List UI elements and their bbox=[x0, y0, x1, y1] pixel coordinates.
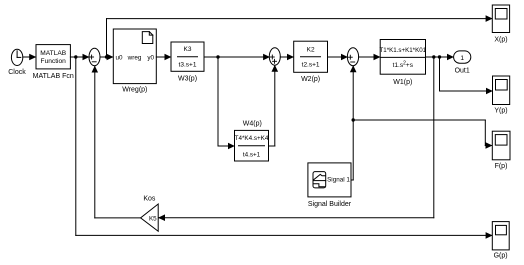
svg-text:t2.s+1: t2.s+1 bbox=[302, 62, 320, 69]
node branch to Y(p) bbox=[438, 55, 441, 58]
wire feedback down bbox=[433, 57, 435, 218]
wire W4 to Sum2 bbox=[269, 145, 275, 147]
svg-text:K2: K2 bbox=[307, 46, 315, 53]
node branch to G(p) bbox=[74, 55, 77, 58]
svg-text:F(p): F(p) bbox=[495, 163, 508, 170]
svg-text:t4.s+1: t4.s+1 bbox=[243, 152, 261, 159]
svg-text:MATLAB Fcn: MATLAB Fcn bbox=[33, 73, 74, 80]
sum Sum1 bbox=[89, 48, 100, 65]
svg-text:Signal 1: Signal 1 bbox=[327, 176, 350, 183]
scope X(p) bbox=[492, 5, 509, 44]
svg-text:u0: u0 bbox=[116, 54, 124, 61]
wire reference down bbox=[75, 57, 77, 235]
svg-text:wreg: wreg bbox=[127, 54, 142, 61]
transfer fn W4(p) bbox=[235, 120, 269, 161]
scope F(p) bbox=[492, 131, 510, 170]
wire Sum2 to W2 bbox=[280, 56, 293, 58]
node branch to W4 bbox=[216, 55, 219, 58]
wire to F(p) bbox=[353, 119, 485, 121]
node branch to F(p) bbox=[352, 118, 355, 121]
svg-text:Kos: Kos bbox=[143, 196, 156, 203]
scope G(p) bbox=[492, 222, 509, 260]
svg-text:T4*K4.s+K4: T4*K4.s+K4 bbox=[235, 135, 269, 142]
outport Out1 bbox=[454, 51, 471, 74]
node branch feedback bbox=[432, 55, 435, 58]
wire up to top bbox=[106, 19, 108, 57]
wire down to W4 bbox=[217, 57, 219, 146]
wire Wreg to W3 bbox=[156, 56, 170, 58]
clock Clock bbox=[8, 49, 26, 76]
wire Clock to MATLAB Fcn bbox=[23, 56, 36, 58]
svg-text:T1*K1.s+K1*K01: T1*K1.s+K1*K01 bbox=[379, 47, 426, 54]
svg-text:W4(p): W4(p) bbox=[243, 120, 262, 127]
wire feedback to Kos bbox=[159, 217, 434, 219]
svg-text:Wreg(p): Wreg(p) bbox=[122, 86, 147, 93]
svg-text:X(p): X(p) bbox=[494, 37, 507, 44]
wire Sum1 to Wreg bbox=[100, 56, 113, 58]
wire W3 to Sum2 bbox=[204, 56, 270, 58]
svg-text:Clock: Clock bbox=[8, 69, 26, 76]
sum Sum3 bbox=[347, 48, 358, 66]
transfer fn W1(p) bbox=[379, 40, 426, 87]
transfer fn W3(p) bbox=[171, 42, 204, 82]
scope Y(p) bbox=[493, 76, 510, 115]
wire Kos to Sum1 bbox=[95, 217, 141, 219]
svg-text:t3.s+1: t3.s+1 bbox=[179, 61, 197, 68]
svg-text:1: 1 bbox=[460, 55, 464, 62]
svg-text:G(p): G(p) bbox=[494, 252, 508, 259]
node branch to X(p) bbox=[105, 55, 108, 58]
subsystem Wreg(p) bbox=[113, 29, 156, 93]
wire Signal Builder to Sum3 bbox=[351, 179, 353, 181]
sum Sum2 bbox=[269, 48, 280, 65]
gain Kos bbox=[141, 196, 159, 232]
svg-text:Function: Function bbox=[41, 58, 67, 65]
svg-text:Signal Builder: Signal Builder bbox=[308, 201, 352, 208]
wire Y branch down bbox=[439, 57, 441, 91]
wire into W4 bbox=[218, 145, 234, 147]
wire Sum3 to W1 bbox=[359, 56, 380, 58]
wire W1 to Out1 bbox=[426, 56, 454, 58]
svg-text:W3(p): W3(p) bbox=[178, 75, 197, 82]
svg-text:W2(p): W2(p) bbox=[301, 76, 320, 83]
wire reference to G(p) bbox=[76, 234, 492, 236]
svg-text:K5: K5 bbox=[149, 215, 157, 222]
transfer fn W2(p) bbox=[294, 41, 328, 83]
signal builder Signal Builder bbox=[308, 163, 352, 208]
svg-text:W1(p): W1(p) bbox=[393, 79, 412, 86]
wire top to X(p) bbox=[107, 18, 493, 20]
svg-text:Out1: Out1 bbox=[455, 67, 470, 74]
MATLAB Fcn U1 bbox=[33, 45, 74, 81]
wire to Y(p) bbox=[440, 90, 493, 92]
svg-text:K3: K3 bbox=[184, 46, 192, 53]
svg-text:Y(p): Y(p) bbox=[494, 108, 507, 115]
svg-text:MATLAB: MATLAB bbox=[40, 50, 66, 57]
wire W2 to Sum3 bbox=[328, 56, 348, 58]
wire MATLAB Fcn to Sum1 bbox=[70, 56, 88, 58]
svg-text:y0: y0 bbox=[147, 54, 154, 61]
